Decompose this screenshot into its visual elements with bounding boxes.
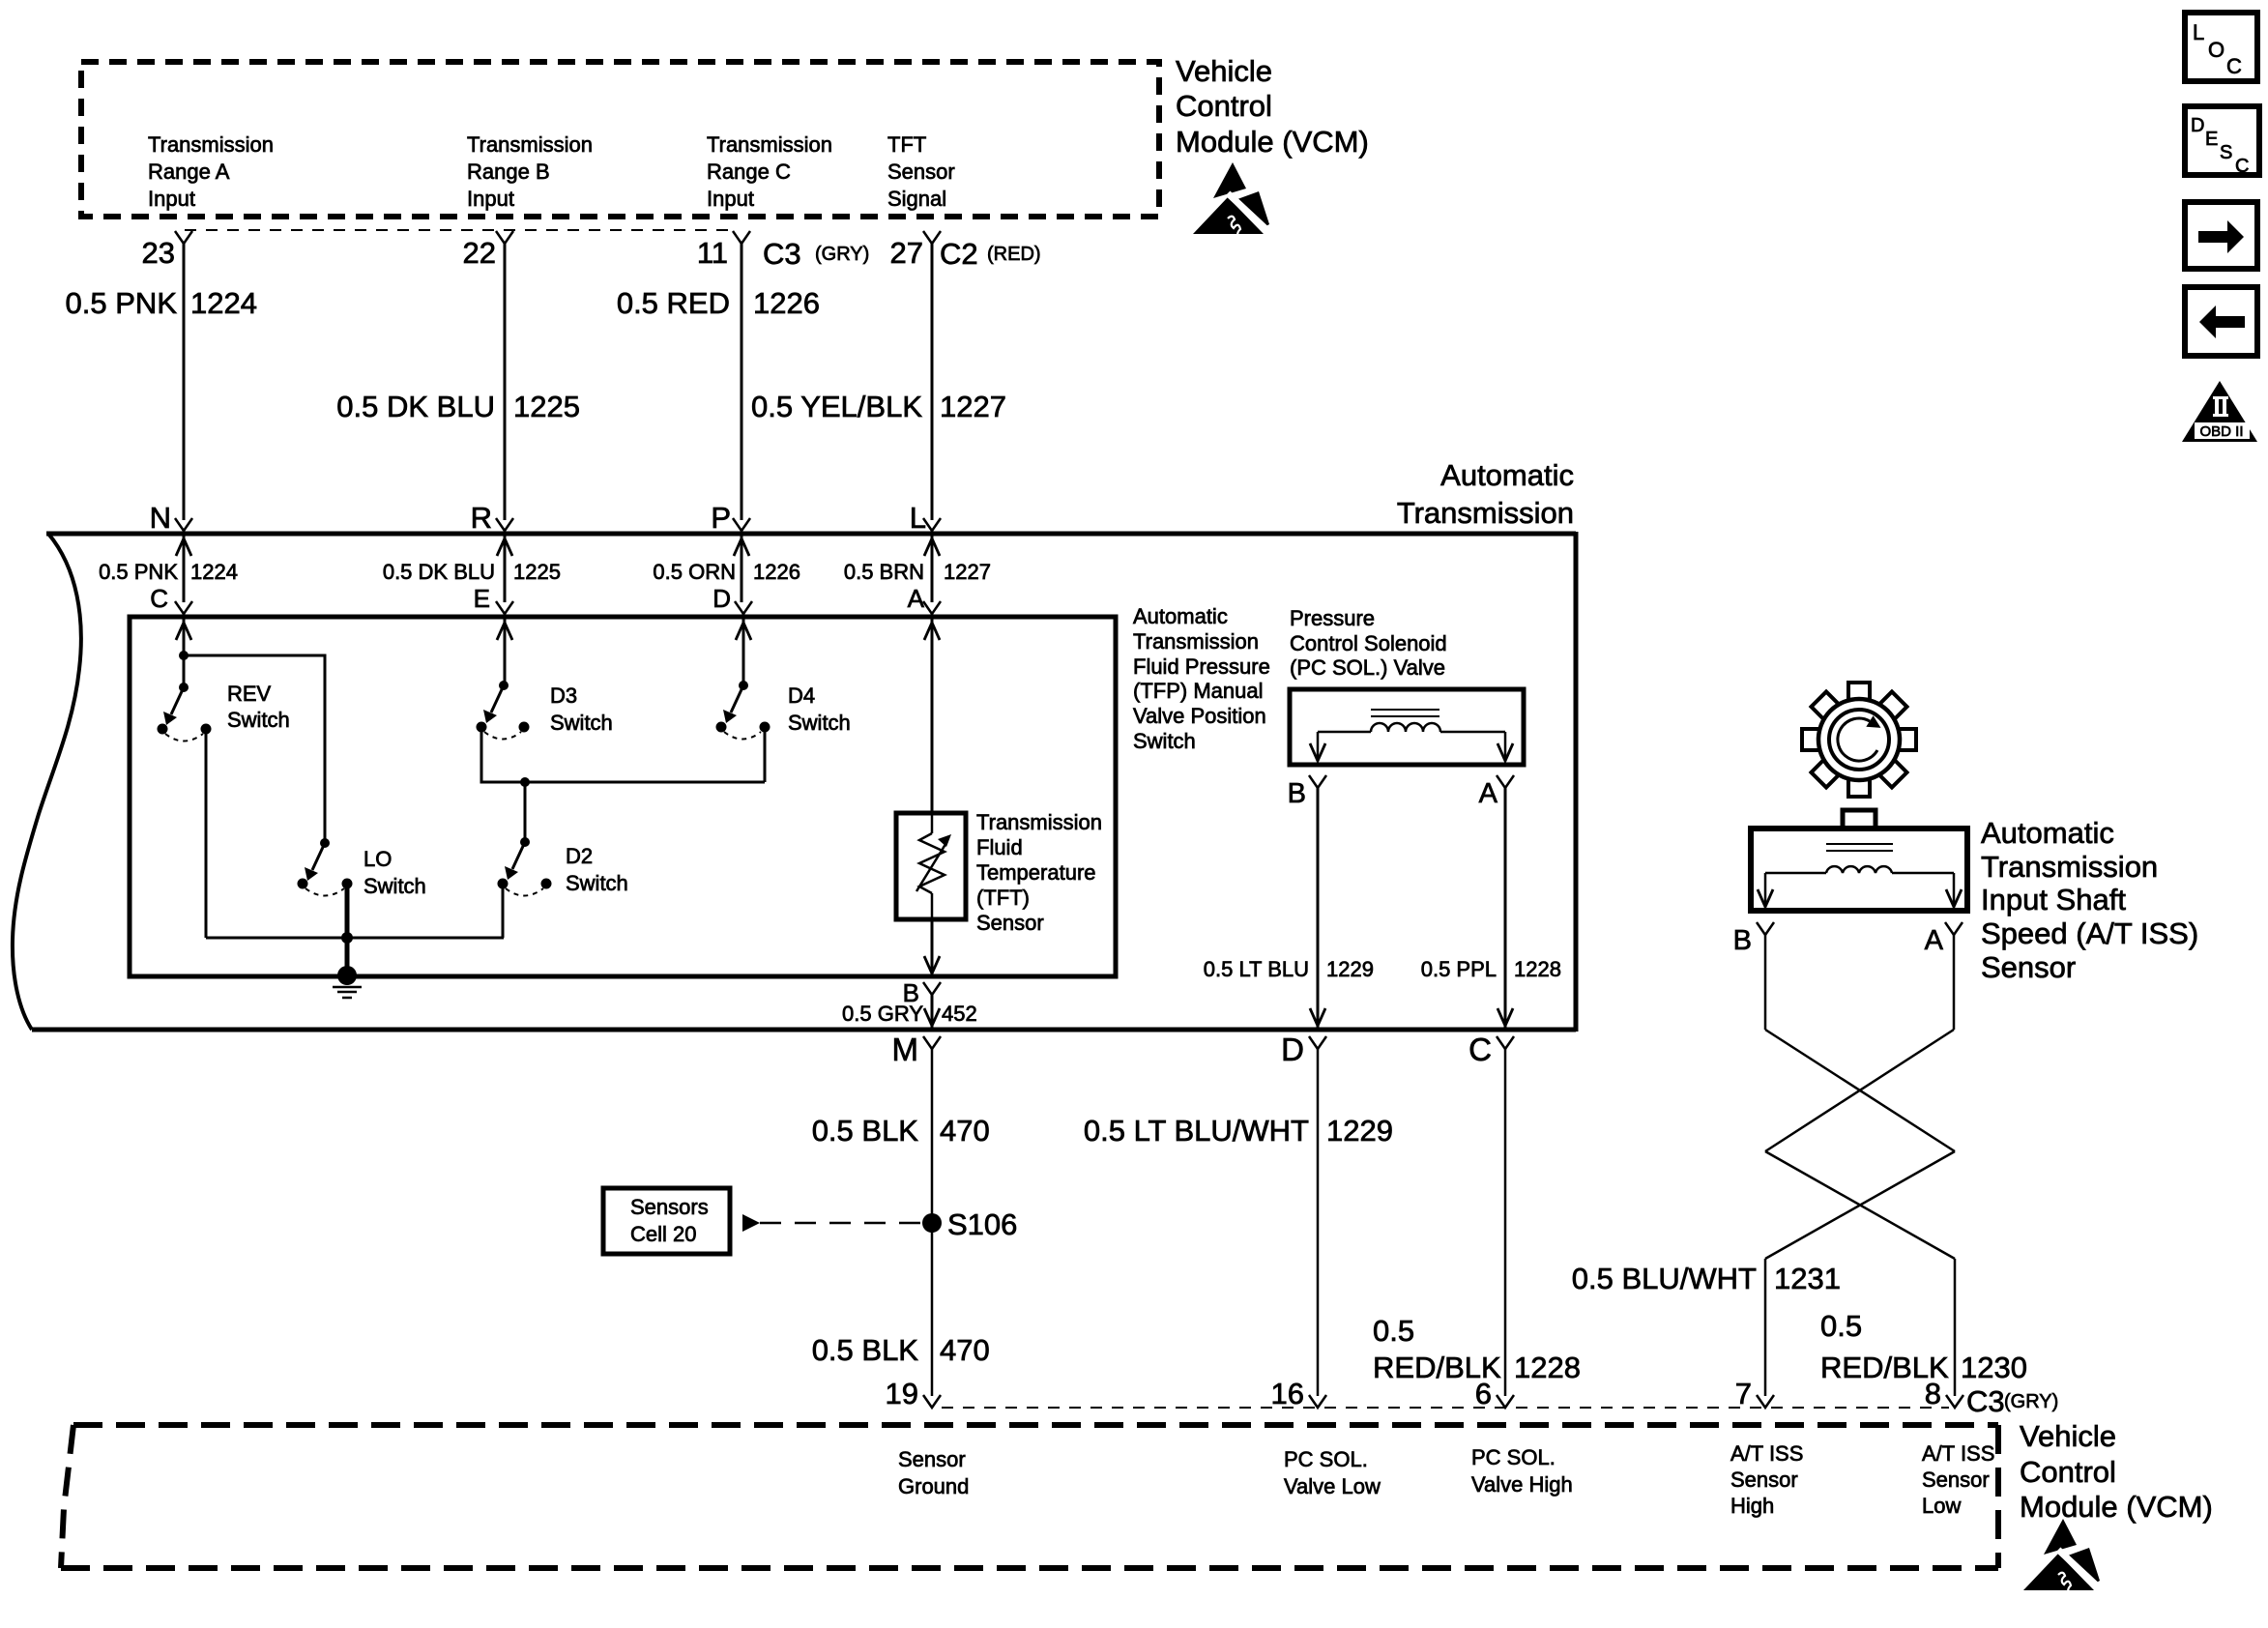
svg-text:E: E: [474, 584, 490, 613]
svg-text:1226: 1226: [753, 560, 800, 584]
svg-text:1224: 1224: [190, 560, 238, 584]
arrow from cell box: [742, 1214, 760, 1232]
svg-text:Transmission: Transmission: [976, 810, 1102, 834]
svg-text:1228: 1228: [1514, 1351, 1581, 1384]
label Automatic Transmission: [1397, 458, 1574, 530]
svg-text:0.5 ORN: 0.5 ORN: [653, 560, 736, 584]
svg-text:Control Solenoid: Control Solenoid: [1290, 631, 1447, 655]
connector stub PC SOL A: [1497, 775, 1514, 788]
svg-text:OBD II: OBD II: [2199, 423, 2243, 440]
connector dashed line below VCM box: [185, 229, 737, 231]
svg-text:LO: LO: [363, 847, 392, 871]
svg-text:Range C: Range C: [707, 160, 791, 184]
connector stub L: [923, 518, 941, 531]
LO switch: [298, 838, 353, 896]
ESD symbol bottom: [2023, 1519, 2101, 1593]
svg-text:1227: 1227: [944, 560, 991, 584]
svg-text:Sensor: Sensor: [976, 911, 1044, 935]
svg-text:E: E: [2205, 129, 2218, 150]
Pressure Control Solenoid (PC SOL.) Valve box: [1290, 689, 1524, 765]
connector stub pin 11: [733, 231, 750, 244]
svg-text:Control: Control: [2020, 1455, 2116, 1489]
label Transmission Range C Input: [707, 132, 832, 211]
svg-text:C2: C2: [940, 237, 978, 271]
connector stub D: [735, 601, 752, 614]
svg-text:Switch: Switch: [788, 711, 851, 735]
svg-text:0.5 RED: 0.5 RED: [617, 286, 730, 320]
label D2 Switch: [566, 844, 628, 895]
connector stub C: [1497, 1036, 1514, 1049]
svg-text:P: P: [711, 501, 731, 535]
Automatic Transmission box right edge: [1574, 532, 1579, 1032]
label 0.5 RED/BLK 1230: [1820, 1309, 2027, 1384]
wire 1227 inside transmission: [931, 531, 934, 813]
svg-text:Input Shaft: Input Shaft: [1981, 883, 2126, 916]
label 0.5 ORN 1226 small: [653, 560, 800, 584]
TFP manual valve position switch box: [130, 617, 1116, 976]
svg-text:0.5 DK BLU: 0.5 DK BLU: [336, 390, 495, 423]
svg-text:Input: Input: [467, 187, 514, 211]
svg-text:Pressure: Pressure: [1290, 606, 1375, 630]
svg-text:O: O: [2208, 38, 2224, 62]
connector stub pin 7: [1757, 1395, 1774, 1408]
connector stub pin 16: [1309, 1395, 1326, 1408]
svg-text:(GRY): (GRY): [2004, 1391, 2058, 1412]
svg-text:7: 7: [1735, 1377, 1752, 1410]
icon right arrow button: [2185, 202, 2257, 269]
label 0.5 PNK 1224 small: [99, 560, 238, 584]
svg-text:16: 16: [1271, 1377, 1304, 1410]
label 0.5 GRY 452: [842, 1002, 977, 1026]
TFT sensor box: [896, 813, 966, 919]
svg-text:Sensor: Sensor: [1922, 1468, 1990, 1492]
svg-text:Sensor: Sensor: [898, 1447, 966, 1471]
svg-text:Switch: Switch: [566, 871, 628, 895]
svg-text:Sensor: Sensor: [1981, 950, 2076, 984]
ground: [333, 966, 362, 998]
svg-text:0.5 BLK: 0.5 BLK: [812, 1333, 919, 1367]
svg-text:470: 470: [940, 1114, 990, 1148]
wire 1225 inside transmission: [504, 531, 507, 685]
svg-text:0.5 PNK: 0.5 PNK: [66, 286, 178, 320]
wire 1229 to pin 16: [1317, 1049, 1320, 1396]
wire REV contact down: [205, 733, 208, 938]
label 0.5 RED 1226: [617, 286, 820, 320]
wire 1229 PC SOL to bottom: [1317, 788, 1320, 1028]
arrow into transmission wire 1225: [497, 538, 512, 556]
svg-text:Transmission: Transmission: [707, 132, 832, 157]
svg-text:D3: D3: [550, 683, 577, 708]
connector stub pin 6: [1497, 1395, 1514, 1408]
wire 1224 VCM to transmission: [183, 244, 186, 520]
svg-text:6: 6: [1475, 1377, 1492, 1410]
svg-text:(TFP) Manual: (TFP) Manual: [1133, 679, 1263, 703]
connector stub pin 22: [496, 231, 513, 244]
REV switch: [158, 683, 212, 741]
arrow out of transmission wire 1229: [1310, 1008, 1325, 1026]
svg-text:C3: C3: [1966, 1384, 2005, 1418]
svg-text:27: 27: [890, 236, 923, 270]
arrow PC SOL pin B: [1310, 743, 1325, 761]
label 0.5 YEL/BLK 1227: [751, 390, 1006, 423]
svg-text:1225: 1225: [513, 390, 580, 423]
svg-text:Ground: Ground: [898, 1474, 969, 1498]
Automatic Transmission box left torn-edge curve: [13, 534, 81, 1030]
svg-text:Transmission: Transmission: [1133, 629, 1259, 654]
svg-text:Automatic: Automatic: [1440, 458, 1574, 492]
svg-text:L: L: [2193, 20, 2204, 44]
svg-text:C: C: [2235, 156, 2249, 177]
connector stub pin 27: [923, 231, 941, 244]
ISS core bars: [1826, 843, 1893, 845]
svg-text:Switch: Switch: [550, 711, 613, 735]
svg-text:1227: 1227: [940, 390, 1006, 423]
arrow into TFP box wire C: [176, 623, 191, 640]
svg-text:B: B: [1733, 925, 1752, 956]
svg-text:PC SOL.: PC SOL.: [1471, 1445, 1556, 1469]
arrow out of TFP box wire B: [924, 956, 940, 974]
PC SOL internal wires: [1318, 731, 1371, 734]
label 0.5 DK BLU 1225: [336, 390, 580, 423]
svg-text:0.5 LT BLU/WHT: 0.5 LT BLU/WHT: [1084, 1114, 1309, 1148]
wire LO contact to ground: [345, 884, 350, 975]
arrow out of transmission wire 452: [924, 1008, 940, 1026]
label PC SOL. Valve High: [1471, 1445, 1573, 1497]
connector stub E: [496, 601, 513, 614]
Automatic Transmission box bottom edge: [32, 1028, 1576, 1032]
label Sensor Ground: [898, 1447, 969, 1498]
svg-text:A: A: [908, 584, 925, 613]
svg-text:Input: Input: [148, 187, 195, 211]
svg-text:Temperature: Temperature: [976, 860, 1096, 885]
svg-text:0.5 BLK: 0.5 BLK: [812, 1114, 919, 1148]
svg-text:Range A: Range A: [148, 160, 230, 184]
svg-text:D: D: [2191, 115, 2204, 136]
label D3 Switch: [550, 683, 613, 735]
connector stub ISS B: [1757, 922, 1774, 935]
connector stub B: [923, 982, 941, 995]
wire D2 branch down: [524, 782, 527, 842]
svg-text:Fluid: Fluid: [976, 835, 1023, 859]
svg-text:M: M: [892, 1032, 919, 1067]
svg-text:470: 470: [940, 1333, 990, 1367]
svg-text:(TFT): (TFT): [976, 886, 1030, 910]
svg-text:1229: 1229: [1326, 1114, 1393, 1148]
svg-text:452: 452: [942, 1002, 977, 1026]
wire 470 sensor ground: [931, 1049, 934, 1396]
node junction D2 branch: [520, 777, 530, 787]
arrow into TFP box wire A: [924, 623, 940, 640]
arrow into transmission wire 1226: [734, 538, 749, 556]
svg-text:Transmission: Transmission: [1397, 496, 1574, 530]
svg-text:Range B: Range B: [467, 160, 550, 184]
svg-text:REV: REV: [227, 682, 272, 706]
wire ISS A down: [1953, 935, 1956, 1030]
D3 switch: [477, 681, 530, 740]
svg-text:PC SOL.: PC SOL.: [1284, 1447, 1368, 1471]
connector stub R: [496, 518, 513, 531]
dashed link to S106: [760, 1222, 920, 1225]
svg-text:S: S: [2220, 142, 2232, 163]
svg-text:0.5 LT BLU: 0.5 LT BLU: [1204, 957, 1309, 981]
label 0.5 BLU/WHT 1231: [1572, 1262, 1841, 1295]
PC SOL solenoid core bars: [1371, 709, 1439, 711]
svg-text:11: 11: [697, 236, 728, 270]
svg-text:D: D: [712, 584, 731, 613]
PC SOL coil: [1371, 723, 1440, 732]
Vehicle Control Module (VCM) top dashed box: [81, 62, 1159, 217]
ISS internal wires: [1765, 872, 1826, 875]
svg-text:0.5: 0.5: [1820, 1309, 1862, 1343]
svg-text:High: High: [1730, 1494, 1774, 1518]
A/T ISS sensor nub: [1843, 810, 1875, 829]
wire 1226 inside transmission: [741, 531, 743, 685]
label Transmission Range B Input: [467, 132, 593, 211]
svg-text:Valve Low: Valve Low: [1284, 1474, 1381, 1498]
connector stub pin 23: [175, 231, 192, 244]
connector stub ISS A: [1945, 922, 1963, 935]
wire 1228 PC SOL to bottom: [1504, 788, 1507, 1028]
arrow PC SOL pin A: [1497, 743, 1513, 761]
D4 switch: [716, 681, 771, 740]
connector stub N: [175, 518, 192, 531]
splice S106: [922, 1213, 942, 1233]
svg-text:Automatic: Automatic: [1981, 816, 2114, 850]
gear icon: [1779, 659, 1940, 821]
wire 452: [931, 995, 934, 1028]
icon left arrow button: [2185, 287, 2257, 356]
wire 1226 VCM to transmission: [741, 244, 743, 520]
Automatic Transmission box top edge: [46, 532, 1576, 537]
label LO Switch: [363, 847, 426, 898]
svg-text:0.5 PPL: 0.5 PPL: [1421, 957, 1497, 981]
label Transmission Fluid Temperature (TFT) Sensor: [976, 810, 1102, 935]
wire D3 contact down to bus: [481, 731, 765, 782]
svg-text:(RED): (RED): [987, 244, 1041, 265]
Sensors Cell 20 box: [603, 1188, 730, 1254]
label Transmission Range A Input: [148, 132, 274, 211]
ESD symbol top: [1193, 162, 1270, 237]
svg-text:A: A: [1925, 925, 1944, 956]
svg-text:Transmission: Transmission: [467, 132, 593, 157]
svg-text:Module (VCM): Module (VCM): [2020, 1490, 2213, 1524]
svg-text:1229: 1229: [1326, 957, 1374, 981]
svg-text:A/T ISS: A/T ISS: [1730, 1441, 1803, 1466]
arrow into TFP box wire D: [736, 623, 751, 640]
svg-text:Switch: Switch: [363, 874, 426, 898]
svg-text:A/T ISS: A/T ISS: [1922, 1441, 1994, 1466]
D2 switch: [498, 837, 552, 896]
connector stub C: [175, 601, 192, 614]
node junction REV branch: [179, 651, 189, 660]
svg-text:Fluid Pressure: Fluid Pressure: [1133, 654, 1270, 679]
svg-text:0.5 YEL/BLK: 0.5 YEL/BLK: [751, 390, 922, 423]
svg-text:Automatic: Automatic: [1133, 604, 1228, 628]
svg-text:8: 8: [1925, 1377, 1941, 1410]
arrow ISS pin A: [1946, 889, 1962, 907]
svg-text:(PC SOL.) Valve: (PC SOL.) Valve: [1290, 655, 1445, 680]
A/T ISS sensor box: [1751, 829, 1967, 911]
connector stub P: [733, 518, 750, 531]
label Pressure Control Solenoid (PC SOL.) Valve: [1290, 606, 1447, 680]
wire C stub inside TFP: [183, 622, 186, 687]
wire TFT to pin B: [931, 919, 934, 975]
svg-text:0.5: 0.5: [1373, 1314, 1414, 1348]
svg-text:Vehicle: Vehicle: [1176, 54, 1272, 88]
svg-text:D: D: [1281, 1032, 1304, 1067]
svg-text:Sensors: Sensors: [630, 1195, 709, 1219]
svg-text:22: 22: [463, 236, 496, 270]
svg-text:Valve Position: Valve Position: [1133, 704, 1266, 728]
svg-text:Input: Input: [707, 187, 754, 211]
icon LOC button: [2185, 13, 2257, 81]
svg-text:R: R: [471, 501, 492, 535]
arrow out of transmission wire 1228: [1497, 1008, 1513, 1026]
svg-text:1230: 1230: [1961, 1351, 2027, 1384]
label 0.5 RED/BLK 1228: [1373, 1314, 1581, 1384]
twisted pair crossover: [1765, 1030, 1955, 1396]
wire bottom connector REV-D2: [206, 937, 504, 940]
label PC SOL. Valve Low: [1284, 1447, 1381, 1498]
TFT sensor thermistor: [916, 815, 951, 917]
label Vehicle Control Module (VCM) top: [1176, 54, 1369, 159]
svg-text:0.5 BRN: 0.5 BRN: [844, 560, 924, 584]
wire 1224 inside transmission: [183, 531, 186, 655]
svg-text:C: C: [2226, 54, 2242, 78]
label D4 Switch: [788, 683, 851, 735]
connector stub PC SOL B: [1309, 775, 1326, 788]
wire 1227 VCM to transmission: [931, 244, 934, 520]
wire D4 contact down: [764, 731, 767, 782]
svg-text:1231: 1231: [1774, 1262, 1841, 1295]
wire ISS B down: [1764, 935, 1767, 1030]
Vehicle Control Module (VCM) bottom dashed box: [61, 1425, 1998, 1568]
label 0.5 BLK 470 lower: [812, 1333, 990, 1367]
connector stub M: [923, 1036, 941, 1049]
svg-text:D2: D2: [566, 844, 593, 868]
svg-text:Sensor: Sensor: [887, 160, 955, 184]
svg-text:C3: C3: [763, 237, 801, 271]
label 0.5 LT BLU 1229: [1204, 957, 1374, 981]
svg-text:B: B: [1288, 778, 1306, 809]
label Automatic Transmission Input Shaft Speed (A/T ISS) Sensor: [1981, 816, 2198, 984]
svg-text:23: 23: [142, 236, 175, 270]
svg-text:Module (VCM): Module (VCM): [1176, 125, 1369, 159]
label 0.5 PPL 1228: [1421, 957, 1561, 981]
svg-text:Switch: Switch: [227, 708, 290, 732]
svg-text:D4: D4: [788, 683, 815, 708]
label A/T ISS Sensor Low: [1922, 1441, 1994, 1518]
wire REV to LO branch: [184, 655, 325, 843]
svg-text:S106: S106: [947, 1207, 1017, 1241]
svg-text:0.5 GRY: 0.5 GRY: [842, 1002, 923, 1026]
svg-text:Transmission: Transmission: [1981, 850, 2158, 884]
svg-text:0.5 BLU/WHT: 0.5 BLU/WHT: [1572, 1262, 1757, 1295]
svg-text:Sensor: Sensor: [1730, 1468, 1798, 1492]
arrow into transmission wire 1224: [176, 538, 191, 556]
svg-text:TFT: TFT: [887, 132, 926, 157]
label 0.5 BLK 470 upper: [812, 1114, 990, 1148]
wire 1225 VCM to transmission: [504, 244, 507, 520]
svg-text:L: L: [910, 501, 926, 535]
wire D2 contact down to bottom connector: [503, 887, 504, 938]
label 0.5 DK BLU 1225 small: [383, 560, 561, 584]
label REV Switch: [227, 682, 290, 732]
svg-text:1228: 1228: [1514, 957, 1561, 981]
label Vehicle Control Module (VCM) bottom: [2020, 1419, 2213, 1524]
connector stub pin 19: [923, 1395, 941, 1408]
svg-text:A: A: [1479, 778, 1498, 809]
node junction ground wire: [341, 932, 353, 944]
svg-text:Vehicle: Vehicle: [2020, 1419, 2116, 1453]
svg-text:Control: Control: [1176, 89, 1272, 123]
icon DESC button: [2185, 106, 2259, 177]
label TFP switch: [1133, 604, 1270, 753]
connector stub A: [923, 601, 941, 614]
connector stub pin 8: [1946, 1395, 1963, 1408]
svg-text:19: 19: [886, 1377, 918, 1410]
arrow into TFP box wire E: [497, 623, 512, 640]
svg-text:N: N: [150, 501, 171, 535]
svg-text:0.5 DK BLU: 0.5 DK BLU: [383, 560, 495, 584]
label 0.5 PNK 1224: [66, 286, 257, 320]
icon OBD II: [2182, 381, 2257, 442]
label A/T ISS Sensor High: [1730, 1441, 1803, 1518]
svg-text:Transmission: Transmission: [148, 132, 274, 157]
connector stub D: [1309, 1036, 1326, 1049]
svg-text:1226: 1226: [753, 286, 820, 320]
svg-text:Signal: Signal: [887, 187, 946, 211]
svg-text:1225: 1225: [513, 560, 561, 584]
svg-text:Speed (A/T ISS): Speed (A/T ISS): [1981, 916, 2198, 950]
label 0.5 BRN 1227 small: [844, 560, 991, 584]
svg-text:0.5 PNK: 0.5 PNK: [99, 560, 178, 584]
svg-text:Switch: Switch: [1133, 729, 1196, 753]
svg-text:Valve High: Valve High: [1471, 1472, 1573, 1497]
arrow into transmission wire 1227: [924, 538, 940, 556]
wire 1228 to pin 6: [1504, 1049, 1507, 1396]
svg-text:Low: Low: [1922, 1494, 1961, 1518]
svg-text:1224: 1224: [190, 286, 257, 320]
svg-text:(GRY): (GRY): [815, 244, 869, 265]
svg-text:C: C: [1468, 1032, 1492, 1067]
ISS coil: [1826, 866, 1892, 873]
label TFT Sensor Signal: [887, 132, 955, 211]
label 0.5 LT BLU/WHT 1229: [1084, 1114, 1393, 1148]
connector dashed line bottom VCM: [942, 1407, 1949, 1409]
svg-text:Cell 20: Cell 20: [630, 1222, 696, 1246]
svg-text:C: C: [150, 584, 168, 613]
arrow ISS pin B: [1758, 889, 1773, 907]
